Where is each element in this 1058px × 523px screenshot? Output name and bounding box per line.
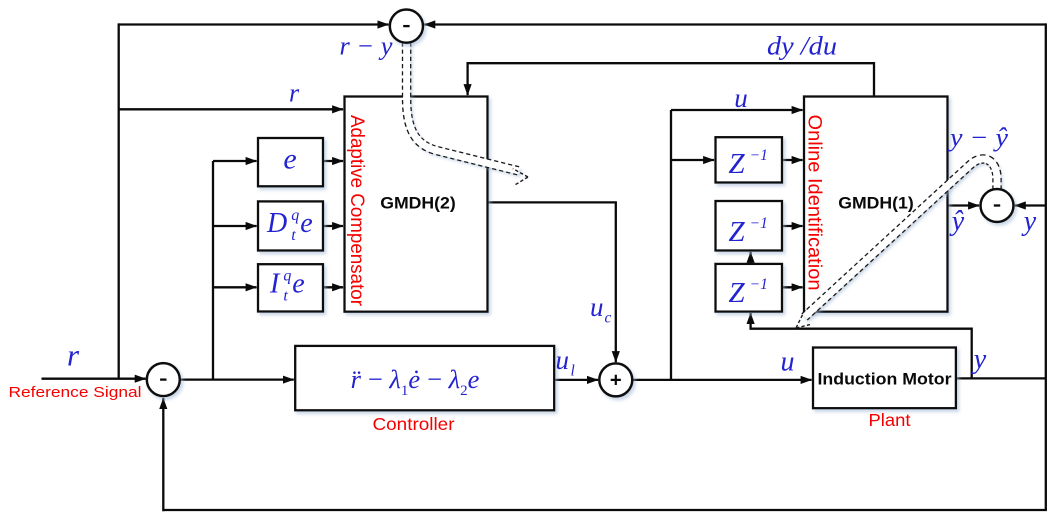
block Iqte — [258, 264, 323, 311]
wire right vertical — [1045, 23, 1047, 510]
block GMDH(1) Online Identification — [804, 97, 948, 312]
wire Induction Motor output y — [956, 377, 1046, 379]
dashed r-y signal band from SUM1 into GMDH(2) — [407, 28, 528, 185]
summing junction SUM2 (reference, minus) — [147, 363, 180, 396]
summing junction SUM3 (plus) — [599, 363, 632, 396]
wire Z3 output — [782, 286, 803, 288]
svg-text:e: e — [283, 143, 296, 176]
svg-text:Controller: Controller — [373, 414, 455, 434]
wire SUM2 output to Controller — [180, 378, 294, 380]
svg-text:y − ŷ: y − ŷ — [947, 123, 1009, 152]
wire e box output — [323, 160, 343, 162]
wire Controller output ul into SUM3 — [554, 379, 598, 381]
wire top-left horizontal into SUM1 — [119, 23, 389, 25]
wire left vertical — [118, 23, 120, 379]
svg-text:Induction Motor: Induction Motor — [818, 370, 952, 389]
svg-text:ŷ: ŷ — [949, 206, 965, 237]
wire y tap into Z3 — [751, 313, 972, 378]
wire feedback vertical into SUM2 — [162, 398, 164, 511]
svg-text:Adaptive Compensator: Adaptive Compensator — [346, 115, 367, 307]
svg-text:r: r — [289, 79, 300, 108]
svg-text:y: y — [971, 344, 987, 375]
dashed y-yhat signal band from SUM4 into GMDH(1) — [796, 159, 997, 328]
wire branch into I box — [213, 286, 257, 288]
wire r into GMDH(2) — [119, 108, 343, 110]
wire dy/du feedback from GMDH(1) into GMDH(2) — [468, 63, 874, 96]
wire SUM3 output u to Induction Motor — [632, 379, 811, 381]
block GMDH(2) Adaptive Compensator — [345, 97, 488, 312]
wire Z3 to Z2 — [749, 252, 751, 264]
wire u into GMDH(1) — [671, 109, 803, 111]
wire error vertical to e-boxes — [212, 161, 214, 380]
svg-text:r: r — [67, 338, 80, 373]
wire branch into D box — [213, 225, 257, 227]
svg-text:dy /du: dy /du — [767, 32, 837, 61]
wire y into SUM4 — [1015, 204, 1046, 206]
block Z1 — [716, 137, 783, 182]
block Z3 — [716, 264, 783, 312]
wire Z2 output — [782, 225, 803, 227]
wire I box output — [323, 286, 343, 288]
svg-text:Online Identification: Online Identification — [804, 115, 825, 291]
svg-text:u: u — [734, 83, 748, 113]
wire yhat into SUM4 — [948, 204, 980, 206]
wire branch into e box — [213, 160, 257, 162]
block Dqte — [258, 201, 323, 250]
svg-text:r − y: r − y — [340, 32, 393, 61]
wire r input — [42, 378, 146, 380]
svg-text:Plant: Plant — [869, 410, 911, 430]
wire D box output — [323, 225, 343, 227]
svg-text:u: u — [781, 347, 795, 378]
block Controller — [295, 346, 554, 410]
svg-text:GMDH(1): GMDH(1) — [838, 194, 914, 213]
svg-text:Reference Signal: Reference Signal — [9, 384, 142, 401]
block Z2 — [716, 201, 783, 251]
block Induction Motor — [813, 348, 956, 409]
wire GMDH(2) output uc into SUM3 — [488, 202, 616, 362]
block e — [258, 138, 323, 186]
wire Z1 output — [782, 159, 803, 161]
wire top-right horizontal into SUM1 from right — [424, 23, 1046, 25]
summing junction SUM4 (identification error, minus) — [981, 189, 1014, 222]
wire u into Z1 — [671, 159, 714, 161]
wire u vertical tap — [670, 110, 672, 380]
svg-text:y: y — [1021, 206, 1037, 237]
wire bottom feedback horizontal — [163, 509, 1047, 511]
summing junction SUM1 (top, minus) — [390, 10, 423, 43]
svg-text:GMDH(2): GMDH(2) — [380, 194, 456, 213]
